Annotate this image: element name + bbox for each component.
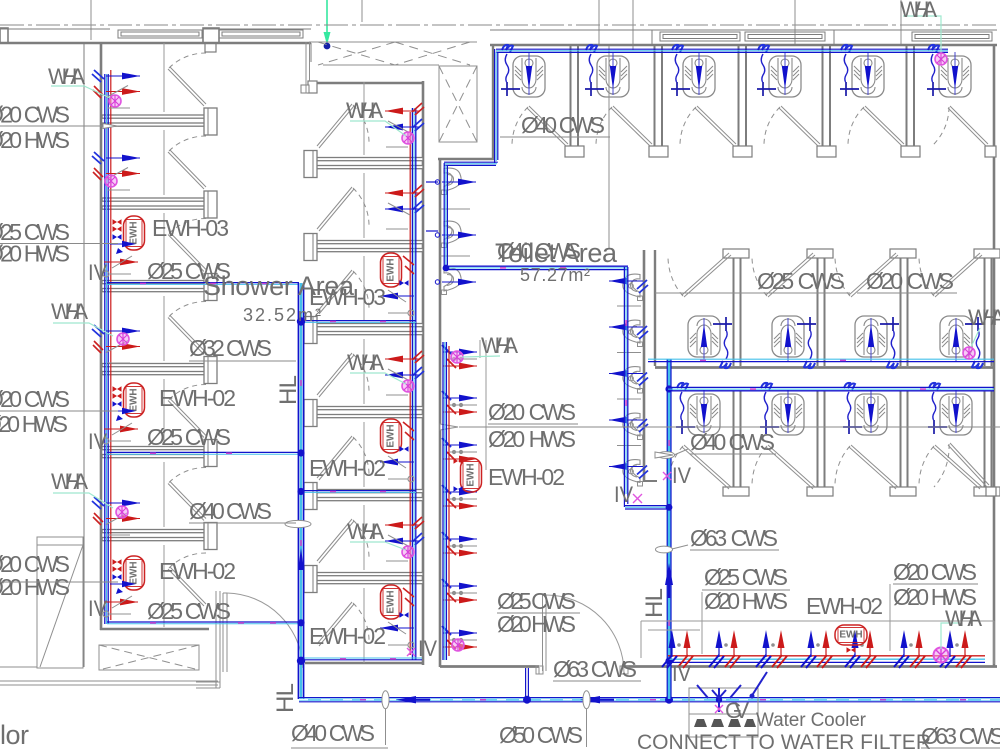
lower middle row stall partitions	[723, 391, 749, 496]
middle row toilets: upper row rotated 180, lower row plain	[676, 316, 984, 435]
water heater EWH-02 unit stall M7	[380, 585, 414, 648]
shower area exit door bottom	[196, 591, 303, 688]
shower fixture set stall L2	[92, 152, 140, 190]
middle toilet rows pipes	[648, 359, 994, 391]
water heater EWH-02 unit stall M5	[380, 419, 414, 482]
toilet WC10 upper middle row	[940, 316, 984, 368]
svg-text:WHA: WHA	[968, 305, 1000, 330]
water hammer arrestor WHA strip S7	[452, 639, 464, 651]
svg-text:WHA: WHA	[347, 519, 384, 544]
shower point S6 right strip	[442, 579, 477, 603]
hose bibs right of mid column wall	[426, 182, 438, 231]
urinal U5 column B	[623, 320, 643, 346]
water hammer arrestor WHA strip S1	[451, 351, 463, 363]
shower point S1 right strip	[442, 345, 477, 369]
shower point S4 right strip	[442, 485, 477, 509]
svg-text:IV: IV	[614, 482, 633, 507]
svg-text:Ø20 HWS: Ø20 HWS	[0, 241, 70, 267]
svg-text:IV: IV	[88, 260, 107, 285]
svg-text:IV: IV	[672, 463, 691, 488]
svg-text:Ø25 CWS: Ø25 CWS	[147, 598, 231, 624]
shower fixture set stall M4	[385, 351, 424, 395]
urinal U4 column B	[623, 274, 643, 300]
svg-text:Ø20 HWS: Ø20 HWS	[0, 574, 70, 600]
top toilet row stall partitions	[565, 46, 584, 157]
svg-text:Ø20 HWS: Ø20 HWS	[0, 411, 68, 437]
toilet WC7 upper middle row	[688, 316, 732, 368]
svg-text:WHA: WHA	[51, 469, 88, 494]
svg-text:Toilet Area: Toilet Area	[495, 238, 618, 268]
svg-text:WHA: WHA	[347, 350, 384, 375]
lower middle row stall doors	[668, 445, 731, 489]
svg-text:Ø20 HWS: Ø20 HWS	[704, 588, 788, 614]
svg-text:EWH-02: EWH-02	[806, 593, 883, 619]
svg-text:57.27m²: 57.27m²	[520, 265, 590, 285]
water hammer arrestor WHA M4	[402, 380, 414, 392]
manifold riser pair CWS/HWS	[662, 630, 693, 668]
svg-text:32.52m²: 32.52m²	[243, 305, 321, 325]
water heater EWH-03 unit stall L3 with valves	[103, 216, 145, 277]
svg-text:Ø40 CWS: Ø40 CWS	[291, 720, 375, 746]
svg-text:EWH-03: EWH-03	[152, 215, 229, 241]
small room bottom-left	[0, 537, 218, 685]
water hammer arrestor WHA right wall	[963, 347, 975, 359]
shower point S3 right strip	[442, 438, 477, 462]
water hammer arrestor WHA L6	[116, 506, 128, 518]
toilet WC6 top row	[927, 45, 971, 97]
svg-text:Ø20 CWS: Ø20 CWS	[866, 268, 954, 294]
svg-text:Ø40 CWS: Ø40 CWS	[690, 429, 775, 455]
node: duct connection point	[324, 43, 331, 50]
middle column doors	[317, 104, 369, 646]
water hammer arrestor WHA M1	[402, 132, 414, 144]
svg-text:EWH-02: EWH-02	[309, 455, 386, 481]
toilet WC13 lower middle row	[843, 383, 887, 435]
svg-text:Ø20 HWS: Ø20 HWS	[0, 127, 70, 153]
svg-text:Ø25 CWS: Ø25 CWS	[757, 268, 845, 294]
svg-text:IV: IV	[88, 429, 107, 454]
grid ticks	[91, 0, 901, 248]
svg-text:Ø50 CWS: Ø50 CWS	[499, 722, 583, 748]
left column stall doors	[168, 53, 206, 106]
toilet WC4 top row	[757, 45, 801, 97]
middle column stall partition walls	[304, 151, 423, 178]
urinal U7 column B	[623, 413, 643, 439]
water heater EWH-02 at manifold	[835, 625, 867, 645]
middle column stall doors	[317, 104, 369, 148]
svg-text:IV: IV	[672, 661, 691, 686]
horizontal branches left section	[107, 283, 422, 660]
shower point S7 right strip	[442, 626, 477, 650]
svg-text:IV: IV	[88, 596, 107, 621]
urinal U3 column A	[442, 268, 462, 294]
right strip pipes	[443, 342, 449, 660]
shower point S2 right strip	[442, 391, 477, 415]
svg-text:WHA: WHA	[346, 98, 383, 123]
X-dashed boxes	[99, 42, 477, 670]
HL riser right	[665, 359, 673, 699]
middle column vertical pipes	[410, 108, 416, 660]
HL vertical left	[298, 283, 304, 699]
toilet WC12 lower middle row	[760, 383, 804, 435]
label bracket lines bottom right	[641, 584, 994, 664]
svg-text:IV: IV	[418, 636, 437, 661]
top toilet row stall doors	[512, 106, 568, 146]
svg-text:Ø40 CWS: Ø40 CWS	[521, 112, 605, 138]
valve under EWH-02 manifold	[847, 647, 856, 653]
svg-text:WHA: WHA	[900, 0, 937, 22]
magenta linetype ticks	[140, 268, 966, 700]
svg-text:Shower Area: Shower Area	[203, 271, 355, 301]
svg-text:CONNECT TO WATER FILTER: CONNECT TO WATER FILTER	[637, 731, 931, 750]
svg-text:WHA: WHA	[481, 333, 518, 358]
water heater EWH-03 unit stall M3	[380, 253, 414, 316]
water heater EWH-02 unit stall L5	[103, 383, 145, 444]
shower fixture set stall L1	[92, 70, 140, 108]
svg-text:HL: HL	[641, 588, 668, 618]
junction dots HL left	[297, 317, 722, 703]
svg-text:Ø25 CWS: Ø25 CWS	[704, 564, 788, 590]
shower fixture set stall M1	[385, 103, 424, 147]
toilet WC11 lower middle row	[676, 383, 720, 435]
toilet WC9 upper middle row	[855, 316, 899, 368]
svg-text:Ø20 CWS: Ø20 CWS	[488, 399, 576, 425]
toilet area entry door	[536, 595, 628, 674]
svg-text:EWH-02: EWH-02	[159, 558, 236, 584]
toilet WC5 top row	[840, 45, 884, 97]
toilet WC14 lower middle row	[928, 383, 972, 435]
water heater EWH-02 unit stall L7	[103, 556, 145, 617]
shower fixture set stall L4	[92, 325, 140, 363]
water hammer arrestor WHA L1	[109, 95, 121, 107]
shower fixture set stall M6	[385, 517, 424, 561]
urinal U6 column B	[623, 367, 643, 393]
svg-text:Ø63 CWS: Ø63 CWS	[690, 525, 778, 551]
shower fixture set stall L6	[92, 497, 140, 535]
left column doors	[168, 53, 206, 606]
svg-text:WHA: WHA	[945, 606, 982, 631]
main toilet-area horizontal at y267 and down at x626	[443, 265, 670, 509]
upper middle row stall partitions	[723, 249, 749, 366]
svg-text:HL: HL	[275, 375, 302, 405]
svg-text:EWH-02: EWH-02	[159, 385, 236, 411]
svg-text:Ø63 CWS: Ø63 CWS	[553, 656, 637, 682]
urinal U1 column A	[442, 168, 462, 194]
left column vertical pipes	[105, 70, 111, 624]
top-right toilet row pipe	[444, 49, 948, 268]
svg-text:EWH-02: EWH-02	[488, 464, 565, 490]
water heater EWH-02 right strip	[461, 458, 482, 492]
svg-text:Ø20 HWS: Ø20 HWS	[488, 426, 576, 452]
shower fixture set stall M2	[385, 185, 424, 229]
svg-text:lor: lor	[0, 720, 29, 750]
svg-text:WHA: WHA	[51, 299, 88, 324]
middle rows doors	[668, 253, 989, 489]
toilet WC8 upper middle row	[772, 316, 816, 368]
svg-text:Ø20 HWS: Ø20 HWS	[497, 611, 576, 637]
toilet WC2 top row	[585, 45, 629, 97]
upper middle row stall doors	[668, 253, 731, 297]
toilet WC3 top row	[671, 45, 715, 97]
svg-text:GV: GV	[725, 698, 749, 723]
toilet WC1 top row	[501, 45, 545, 97]
magenta X at col B bottom + IV	[633, 494, 642, 503]
urinal U8 column B	[623, 460, 643, 486]
wire: CWS drop at toilet entry	[525, 668, 527, 699]
green leader arrow to node at duct box	[326, 0, 328, 34]
water hammer arrestor WHA L2	[105, 175, 117, 187]
water hammer arrestor WHA M6	[402, 546, 414, 558]
water hammer arrestor WHA manifold	[934, 648, 949, 663]
water hammer arrestor WHA top row	[935, 53, 947, 65]
shower point S5 right strip	[442, 532, 477, 556]
svg-text:EWH-02: EWH-02	[309, 623, 386, 649]
svg-text:Ø40 CWS: Ø40 CWS	[189, 498, 272, 524]
svg-text:Ø63 CWS: Ø63 CWS	[921, 723, 1000, 749]
water hammer arrestor WHA L4	[117, 333, 129, 345]
svg-text:WHA: WHA	[48, 64, 85, 89]
svg-text:Ø25 CWS: Ø25 CWS	[147, 424, 231, 450]
HL bottom horizontal	[299, 668, 1000, 704]
svg-text:Water Cooler: Water Cooler	[756, 710, 867, 731]
left column stall partition walls	[102, 108, 217, 135]
urinal U2 column A	[442, 221, 462, 247]
svg-text:Ø20 CWS: Ø20 CWS	[0, 386, 70, 412]
svg-text:Ø32 CWS: Ø32 CWS	[189, 335, 272, 361]
centerline grid datum	[0, 24, 1000, 26]
svg-text:Ø20 CWS: Ø20 CWS	[893, 559, 977, 585]
svg-text:Ø20 CWS: Ø20 CWS	[0, 102, 70, 128]
svg-text:HL: HL	[272, 683, 299, 713]
